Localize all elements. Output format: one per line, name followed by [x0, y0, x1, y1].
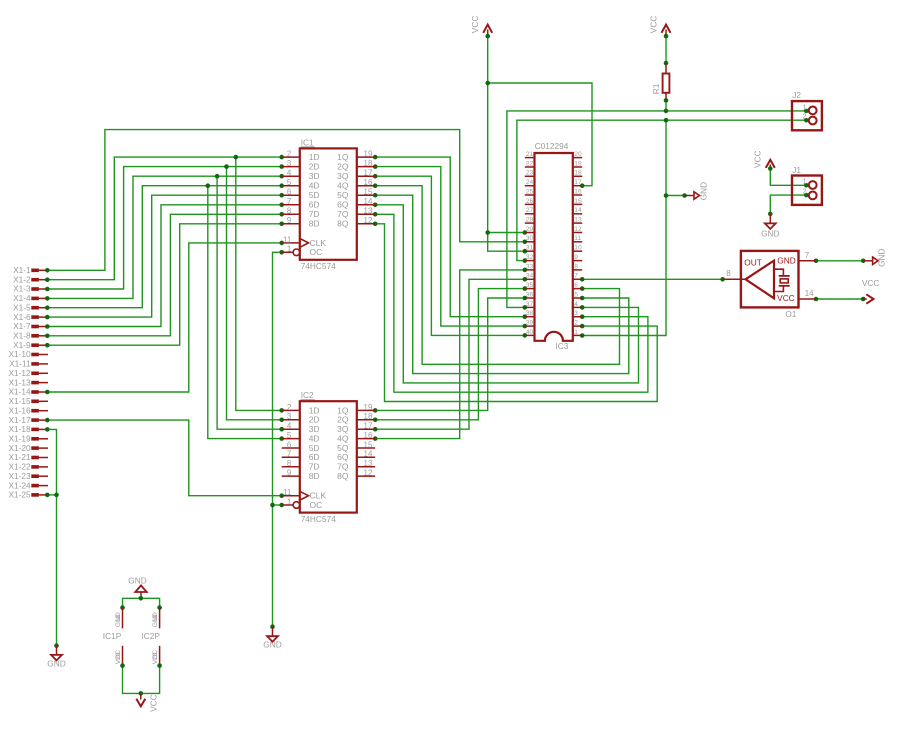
svg-text:9: 9: [574, 254, 578, 261]
ic IC2 (74HC574 octal D flip-flop): [282, 390, 376, 524]
wire net: IC2 4Q to IC3 pin 33: [373, 268, 527, 441]
svg-text:12: 12: [364, 469, 373, 478]
IC3 pin 34 stub: [525, 278, 535, 280]
IC3 pin 8 stub: [573, 269, 582, 271]
svg-text:VCC: VCC: [752, 150, 762, 168]
svg-text:24: 24: [526, 179, 534, 186]
connector pin X1-19: [8, 434, 48, 444]
wire net D1: X1-3 to IC1 2D: [45, 164, 284, 422]
wire net: IC1 7Q to IC3 pin 3: [373, 212, 648, 392]
connector pin X1-17: [8, 415, 48, 425]
IC3 pin 6 stub: [573, 288, 582, 290]
svg-text:VCC: VCC: [148, 694, 158, 712]
svg-text:VCC: VCC: [777, 293, 795, 303]
svg-text:40: 40: [526, 329, 534, 336]
IC1 pin 1 (OC) stub and inversion bubble: [282, 251, 293, 253]
connector pin X1-18: [8, 424, 48, 434]
svg-text:J1: J1: [792, 165, 801, 175]
IC2P GND pin stub: [159, 608, 161, 629]
IC2P VCC pin stub: [159, 646, 161, 666]
IC3 pin 32 stub: [525, 260, 535, 262]
O1 pin 7 (GND) stub: [799, 260, 817, 262]
IC1 pin 17 (3Q) stub: [357, 175, 375, 177]
O1 pin 14 (VCC) stub: [799, 298, 817, 300]
svg-text:17: 17: [364, 169, 373, 178]
IC1 pin 16 (4Q) stub: [357, 185, 375, 187]
IC3 pin 30 stub: [525, 241, 535, 243]
svg-text:36: 36: [526, 291, 534, 298]
ground GND (right of O1): [863, 248, 886, 266]
connector pin X1-6: [13, 312, 48, 322]
wire net D0: X1-2 to IC1 1D: [45, 155, 284, 413]
connector pin X1-21: [8, 452, 48, 462]
connector pin X1-1: [13, 265, 48, 275]
IC3 pin 7 stub: [573, 278, 582, 280]
svg-text:8D: 8D: [309, 471, 320, 481]
IC1 pin 14 (6Q) stub: [357, 204, 375, 206]
svg-text:27: 27: [526, 207, 534, 214]
IC3 pin 25 stub: [525, 194, 535, 196]
svg-text:3D: 3D: [309, 171, 320, 181]
connector J1: [792, 165, 822, 205]
IC3 pin 17 stub: [573, 185, 582, 187]
connector pin X1-13: [8, 377, 48, 387]
svg-text:1: 1: [803, 179, 807, 186]
IC3 pin 38 stub: [525, 316, 535, 318]
connector pin X1-14: [8, 387, 48, 397]
wire net VCC to R1 pin 1: [664, 34, 669, 66]
wire net GND: O1 pin 7 to GND arrow: [814, 259, 866, 264]
IC3 pin 20 stub: [573, 157, 582, 159]
wire net: IC1 4Q to IC3 pin 6: [373, 183, 620, 364]
IC1 pin 2 (1D) stub: [282, 156, 300, 158]
svg-text:37: 37: [526, 301, 534, 308]
IC2 pin 16 (4Q) stub: [357, 438, 375, 440]
svg-text:16: 16: [364, 178, 373, 187]
svg-text:7: 7: [805, 251, 810, 260]
svg-text:2: 2: [574, 320, 578, 327]
svg-text:OC: OC: [310, 247, 323, 257]
IC3 pin 19 stub: [573, 166, 582, 168]
ground GND (below OC net): [263, 627, 281, 650]
svg-text:20: 20: [115, 652, 122, 660]
svg-text:IC1: IC1: [301, 137, 314, 147]
IC3 pin 21 stub: [525, 157, 535, 159]
supply VCC (at J1): [752, 150, 774, 168]
IC1 pin 12 (8Q) stub: [357, 223, 375, 225]
svg-text:32: 32: [526, 254, 534, 261]
svg-text:8Q: 8Q: [337, 471, 349, 481]
IC3 pin 18 stub: [573, 175, 582, 177]
svg-text:25: 25: [526, 188, 534, 195]
wire net: IC1 2Q to IC3 pin 39: [373, 164, 527, 328]
svg-text:7: 7: [287, 197, 292, 206]
svg-text:22: 22: [526, 160, 534, 167]
IC3 pin 24 stub: [525, 185, 535, 187]
svg-text:6: 6: [574, 282, 578, 289]
IC3 pin 2 stub: [573, 325, 582, 327]
IC2 pin 11 (CLK) stub and clock symbol: [282, 495, 300, 497]
IC3 pin 29 stub: [525, 232, 535, 234]
svg-text:14: 14: [574, 207, 582, 214]
wire net VCC: O1 pin 14 to VCC arrow: [814, 297, 866, 302]
IC3 pin 27 stub: [525, 213, 535, 215]
IC3 package outline: [535, 153, 573, 341]
svg-text:14: 14: [805, 289, 814, 298]
svg-text:15: 15: [364, 188, 373, 197]
IC1 pin 5 (4D) stub: [282, 185, 300, 187]
svg-text:19: 19: [574, 160, 582, 167]
IC3 pin 5 stub: [573, 297, 582, 299]
IC2 pin 1 (OC) stub and inversion bubble: [282, 504, 293, 506]
connector pin X1-23: [8, 471, 48, 481]
svg-text:11: 11: [283, 488, 292, 497]
svg-text:2Q: 2Q: [337, 162, 349, 172]
svg-text:IC2P: IC2P: [142, 631, 161, 641]
svg-text:35: 35: [526, 282, 534, 289]
svg-text:4: 4: [574, 301, 578, 308]
wire net VCC: IC1P/IC2P VCC pins: [123, 666, 160, 694]
svg-text:39: 39: [526, 320, 534, 327]
svg-text:18: 18: [364, 159, 373, 168]
O1 inner triangle: [746, 261, 775, 299]
IC3 pin 11 stub: [573, 241, 582, 243]
svg-text:VCC: VCC: [862, 278, 880, 288]
IC3 pin 16 stub: [573, 194, 582, 196]
IC2 pin 18 (2Q) stub: [357, 419, 375, 421]
connector pin X1-22: [8, 462, 48, 472]
svg-text:16: 16: [574, 188, 582, 195]
svg-text:1D: 1D: [309, 152, 320, 162]
svg-text:IC1P: IC1P: [103, 631, 122, 641]
IC3 pin 33 stub: [525, 269, 535, 271]
svg-text:14: 14: [364, 450, 373, 459]
svg-text:8: 8: [287, 207, 292, 216]
svg-text:O1: O1: [785, 309, 796, 319]
IC1 pin 3 (2D) stub: [282, 166, 300, 168]
supply VCC (top, above IC3): [470, 16, 492, 36]
IC3 pin 37 stub: [525, 306, 535, 308]
IC1 pin 19 (1Q) stub: [357, 156, 375, 158]
wire net VCC to J1 pin 1: [768, 166, 809, 187]
ground GND (below J1): [761, 214, 779, 239]
wire net D7: X1-9 to IC1 8D: [45, 222, 284, 348]
svg-text:15: 15: [364, 440, 373, 449]
wire net VCC: to IC3 pins 17, 29, 31: [485, 34, 592, 254]
svg-text:11: 11: [283, 235, 292, 244]
IC1 pin 18 (2Q) stub: [357, 166, 375, 168]
connector pin X1-11: [9, 359, 48, 369]
svg-text:2: 2: [803, 114, 807, 121]
wire net D2: X1-4 to IC1 3D: [45, 174, 284, 432]
svg-text:GND: GND: [128, 576, 146, 586]
IC2 pin 13 (7Q) stub: [357, 466, 375, 468]
wire net: IC1 1Q to IC3 pin 38: [373, 155, 527, 319]
svg-text:X1-25: X1-25: [8, 490, 31, 500]
connector pin X1-4: [13, 293, 48, 303]
svg-text:J2: J2: [792, 90, 801, 100]
svg-text:7: 7: [574, 273, 578, 280]
wire net: IC1 8Q to IC3 pin 2: [373, 222, 657, 402]
svg-text:6D: 6D: [309, 200, 320, 210]
svg-text:18: 18: [364, 412, 373, 421]
supply VCC (bottom arrow): [140, 693, 142, 699]
wire net: X1-1 to IC3 pin 30: [45, 130, 527, 273]
IC3 pin 36 stub: [525, 297, 535, 299]
svg-text:8D: 8D: [309, 219, 320, 229]
svg-text:1: 1: [803, 104, 807, 111]
svg-text:C012294: C012294: [535, 141, 569, 151]
svg-text:13: 13: [574, 217, 582, 224]
svg-text:30: 30: [526, 235, 534, 242]
IC2 pin 8 (7D) stub: [282, 466, 300, 468]
svg-text:20: 20: [574, 151, 582, 158]
IC2 pin 4 (3D) stub: [282, 428, 300, 430]
wire net: X1-14 to IC1 CLK: [45, 241, 284, 395]
supply VCC (right of O1): [862, 278, 880, 304]
connector pin X1-2: [13, 274, 48, 284]
svg-text:5: 5: [287, 431, 292, 440]
IC3 pin 4 stub: [573, 306, 582, 308]
svg-text:21: 21: [526, 151, 534, 158]
svg-text:2: 2: [803, 189, 807, 196]
IC1 pin 8 (7D) stub: [282, 213, 300, 215]
svg-text:6Q: 6Q: [337, 200, 349, 210]
IC2 pin 6 (5D) stub: [282, 447, 300, 449]
wire net D4: X1-6 to IC1 5D: [45, 193, 284, 320]
svg-text:26: 26: [526, 198, 534, 205]
svg-text:74HC574: 74HC574: [301, 261, 336, 271]
svg-text:10: 10: [152, 614, 159, 622]
wire net GND: IC1P/IC2P GND pins: [123, 598, 160, 607]
svg-text:19: 19: [364, 403, 373, 412]
svg-text:12: 12: [364, 216, 373, 225]
svg-text:31: 31: [526, 245, 534, 252]
svg-text:18: 18: [574, 170, 582, 177]
IC1P GND pin stub: [122, 608, 124, 629]
wire net: IC2 2Q to IC3 pin 35: [373, 286, 527, 422]
svg-text:3: 3: [574, 310, 578, 317]
wire net: IC1 6Q to IC3 pin 4: [373, 203, 639, 383]
svg-text:15: 15: [574, 198, 582, 205]
svg-text:6: 6: [287, 440, 292, 449]
svg-text:11: 11: [574, 235, 581, 242]
IC1 pin 13 (7Q) stub: [357, 213, 375, 215]
wire net D3: X1-5 to IC1 4D: [45, 183, 284, 441]
IC3 pin 35 stub: [525, 288, 535, 290]
svg-text:GND: GND: [699, 182, 709, 200]
svg-text:74HC574: 74HC574: [301, 514, 336, 524]
wire net CLKOUT: IC3 pin 7 to O1 OUT: [580, 277, 725, 282]
wire net D2 branch to IC2 3D: [217, 176, 282, 429]
IC3 pin 22 stub: [525, 166, 535, 168]
svg-text:IC2: IC2: [301, 390, 314, 400]
svg-text:GND: GND: [876, 248, 886, 266]
connector J2: [792, 90, 822, 130]
IC2 pin 12 (8Q) stub: [357, 475, 375, 477]
svg-text:34: 34: [526, 273, 534, 280]
svg-text:1Q: 1Q: [337, 152, 349, 162]
IC3 pin 9 stub: [573, 260, 582, 262]
IC3 pin 39 stub: [525, 325, 535, 327]
svg-text:8: 8: [726, 269, 731, 278]
O1 crystal symbol: [774, 269, 783, 276]
connector pin X1-24: [8, 480, 48, 490]
wire net D3 branch to IC2 4D: [208, 186, 282, 439]
wire net: IC2 3Q to IC3 pin 34: [373, 277, 527, 432]
IC1 pin 11 (CLK) stub and clock symbol: [282, 242, 300, 244]
svg-text:1: 1: [287, 497, 292, 506]
svg-text:5Q: 5Q: [337, 190, 349, 200]
IC2 pin 3 (2D) stub: [282, 419, 300, 421]
svg-text:2: 2: [287, 403, 292, 412]
svg-text:23: 23: [526, 170, 534, 177]
svg-text:VCC: VCC: [648, 16, 658, 34]
wire net D6: X1-8 to IC1 7D: [45, 212, 284, 338]
supply VCC (above R1): [648, 16, 670, 36]
wire net D1 branch to IC2 2D: [227, 167, 282, 420]
svg-text:1: 1: [287, 245, 292, 254]
IC3 pin 31 stub: [525, 250, 535, 252]
svg-text:VCC: VCC: [470, 16, 480, 34]
IC3 pin 13 stub: [573, 222, 582, 224]
IC3 pin 12 stub: [573, 232, 582, 234]
svg-text:R1: R1: [651, 83, 661, 94]
IC1 pin 4 (3D) stub: [282, 175, 300, 177]
connector pin X1-10: [8, 349, 48, 359]
svg-text:13: 13: [364, 459, 373, 468]
svg-text:10: 10: [574, 245, 582, 252]
IC2 pin 19 (1Q) stub: [357, 409, 375, 411]
svg-text:16: 16: [364, 431, 373, 440]
IC2 pin 7 (6D) stub: [282, 456, 300, 458]
svg-text:20: 20: [152, 652, 159, 660]
resistor R1: [651, 63, 669, 100]
wire net D5: X1-7 to IC1 6D: [45, 203, 284, 329]
IC1P VCC pin stub: [122, 646, 124, 666]
IC1 pin 6 (5D) stub: [282, 194, 300, 196]
svg-text:17: 17: [574, 179, 582, 186]
svg-text:2D: 2D: [309, 162, 320, 172]
svg-text:3: 3: [287, 159, 292, 168]
IC3 pin 15 stub: [573, 203, 582, 205]
svg-text:7: 7: [287, 450, 292, 459]
svg-text:7D: 7D: [309, 209, 320, 219]
IC3 pin 28 stub: [525, 222, 535, 224]
svg-text:OUT: OUT: [744, 257, 762, 267]
svg-text:GND: GND: [777, 255, 795, 265]
svg-text:29: 29: [526, 226, 534, 233]
IC3 pin 23 stub: [525, 175, 535, 177]
svg-text:3Q: 3Q: [337, 171, 349, 181]
svg-text:GND: GND: [47, 658, 65, 668]
IC2 pin 15 (5Q) stub: [357, 447, 375, 449]
IC2 pin 17 (3Q) stub: [357, 428, 375, 430]
wire net: X1-17 to IC2 CLK: [45, 418, 284, 498]
svg-text:17: 17: [364, 422, 373, 431]
svg-text:5: 5: [574, 291, 578, 298]
IC3 pin 10 stub: [573, 250, 582, 252]
svg-text:GND: GND: [761, 229, 779, 239]
svg-text:28: 28: [526, 217, 534, 224]
svg-text:9: 9: [287, 469, 292, 478]
wire net: IC2 1Q to IC3 pin 36: [373, 296, 527, 413]
connector pin X1-15: [8, 396, 48, 406]
svg-text:IC3: IC3: [556, 341, 569, 351]
svg-text:OC: OC: [310, 500, 323, 510]
connector pin X1-3: [13, 284, 48, 294]
wire net: IC1 5Q to IC3 pin 5: [373, 193, 629, 374]
svg-text:33: 33: [526, 263, 534, 270]
svg-text:5: 5: [287, 178, 292, 187]
svg-text:4Q: 4Q: [337, 181, 349, 191]
connector pin X1-20: [8, 443, 48, 453]
svg-text:14: 14: [364, 197, 373, 206]
connector pin X1-9: [13, 340, 48, 350]
svg-text:9: 9: [287, 216, 292, 225]
svg-text:8: 8: [287, 459, 292, 468]
ic IC1 (74HC574 octal D flip-flop): [282, 137, 376, 271]
O1 pin 8 (OUT) stub: [723, 278, 746, 280]
ic IC3 (C012294 POKEY, DIP-40 package): [525, 141, 582, 351]
IC3 pin 40 stub: [525, 334, 535, 336]
IC2 pin 14 (6Q) stub: [357, 456, 375, 458]
wire net GND from J1 pin 2: [768, 193, 809, 216]
svg-text:5D: 5D: [309, 190, 320, 200]
oscillator O1: [723, 251, 816, 319]
connector pin X1-25: [8, 490, 48, 500]
wire net D0 branch to IC2 1D: [236, 157, 282, 410]
svg-text:12: 12: [574, 226, 582, 233]
ground GND (arrow right, mid): [685, 182, 709, 200]
connector pin X1-12: [8, 368, 48, 378]
IC3 pin 26 stub: [525, 203, 535, 205]
power symbol group IC1P/IC2P: [103, 576, 162, 712]
connector pin X1-5: [13, 302, 48, 312]
svg-text:7Q: 7Q: [337, 209, 349, 219]
IC2 pin 5 (4D) stub: [282, 438, 300, 440]
svg-text:3: 3: [287, 412, 292, 421]
connector pin X1-8: [13, 331, 48, 341]
svg-text:38: 38: [526, 310, 534, 317]
svg-text:GND: GND: [263, 639, 281, 649]
wire net: X1-18 / X1-25 to ground: [45, 427, 59, 648]
svg-text:4: 4: [287, 169, 292, 178]
svg-text:4: 4: [287, 422, 292, 431]
IC1 pin 7 (6D) stub: [282, 204, 300, 206]
IC3 pin 3 stub: [573, 316, 582, 318]
IC1 pin 15 (5Q) stub: [357, 194, 375, 196]
svg-text:8Q: 8Q: [337, 219, 349, 229]
connector pin X1-16: [8, 405, 48, 415]
svg-text:4D: 4D: [309, 181, 320, 191]
IC2 pin 9 (8D) stub: [282, 475, 300, 477]
IC2 pin 2 (1D) stub: [282, 409, 300, 411]
wire net OE: IC1 OC / IC2 OC to ground: [270, 250, 284, 629]
wire net RESET: R1 pin 2 / J2 pin 1 / IC3 pin 37: [507, 98, 809, 310]
svg-text:1: 1: [574, 329, 578, 336]
wire net GND: J2 pin 2 / IC3 pins 32,1 / GND symbol: [517, 118, 809, 338]
svg-text:19: 19: [364, 150, 373, 159]
svg-text:6: 6: [287, 188, 292, 197]
svg-text:10: 10: [115, 614, 122, 622]
svg-text:8: 8: [574, 263, 578, 270]
svg-text:13: 13: [364, 207, 373, 216]
svg-text:2: 2: [287, 150, 292, 159]
IC1 pin 9 (8D) stub: [282, 223, 300, 225]
IC3 pin 1 stub: [573, 334, 582, 336]
wire net: IC1 3Q to IC3 pin 40: [373, 174, 527, 338]
